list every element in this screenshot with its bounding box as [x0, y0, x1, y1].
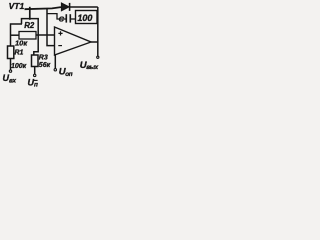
wire C to 100 box	[71, 18, 76, 20]
wire C branch jog	[47, 14, 66, 19]
diode VD cathode bar	[69, 3, 71, 11]
label Up minus	[28, 77, 39, 88]
svg-text:R2: R2	[24, 21, 35, 30]
wire op-amp output	[91, 41, 98, 43]
wire R2 right lead to op-amp + input	[36, 34, 55, 36]
wire R2 left lead	[11, 34, 20, 36]
wire vertical rail to inverting input	[47, 8, 55, 46]
resistor R3	[32, 55, 39, 67]
wire diode to right vertical	[70, 6, 98, 8]
label Uvyx	[80, 60, 99, 71]
op-amp - sign	[58, 45, 62, 47]
resistor R2	[19, 32, 36, 40]
svg-text:100: 100	[77, 13, 92, 23]
label Uop	[59, 67, 73, 79]
wire source node down to R3	[34, 35, 38, 55]
wire source lead	[30, 19, 38, 35]
wire gate to R1 top	[11, 24, 23, 46]
wire drain lead / top rail	[25, 7, 62, 9]
op-amp triangle	[55, 27, 92, 55]
wire output terminal drop	[97, 42, 99, 56]
svg-text:100к: 100к	[11, 63, 27, 70]
wire gate lead	[22, 19, 30, 24]
transistor VT1 channel bar	[29, 7, 31, 20]
wire right vertical feedback	[97, 7, 99, 42]
op-amp + sign	[58, 31, 62, 35]
svg-text:вых: вых	[86, 64, 98, 71]
svg-text:VT1: VT1	[9, 1, 25, 11]
terminal Up-	[34, 74, 36, 76]
diode VD triangle	[61, 3, 69, 11]
resistor R1	[8, 46, 14, 59]
wire Uop drop from op-amp lower corner	[54, 55, 56, 69]
resistor 100 box	[76, 11, 98, 24]
capacitor C plates	[65, 14, 67, 22]
svg-text:C: C	[59, 15, 65, 24]
terminal Uop	[54, 69, 56, 71]
svg-text:оп: оп	[65, 71, 73, 78]
terminal Uvyx	[97, 56, 99, 58]
svg-text:вх: вх	[9, 77, 17, 84]
svg-text:п: п	[34, 82, 38, 89]
svg-text:R3: R3	[39, 55, 48, 62]
svg-text:R1: R1	[15, 49, 24, 56]
terminal Uvx	[9, 70, 11, 72]
svg-text:10к: 10к	[15, 39, 28, 48]
label Uvx	[3, 73, 17, 84]
wire R1 bottom lead	[10, 59, 12, 70]
wire R3 bottom lead	[34, 67, 36, 75]
svg-text:56к: 56к	[39, 62, 51, 69]
